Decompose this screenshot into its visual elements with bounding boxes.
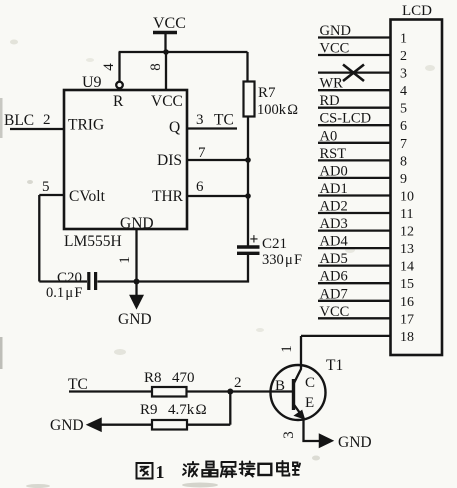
node ground junction [134, 279, 140, 285]
svg-text:330 μ F: 330 μ F [262, 252, 302, 268]
svg-text:5: 5 [400, 102, 407, 117]
wire C20 right lead [97, 280, 136, 282]
no-connect X on pin 3 [343, 65, 364, 82]
svg-text:E: E [305, 395, 314, 411]
wire R7 bottom to C21 [247, 117, 249, 246]
svg-text:GND: GND [118, 311, 152, 328]
wire LCD pin 2 [318, 54, 391, 56]
wire collector to LCD pin 18 [301, 335, 391, 337]
wire LCD pin 14 [318, 264, 391, 266]
IC U9 LM555H body [64, 90, 187, 232]
svg-text:6: 6 [400, 119, 407, 134]
wire BLC to TRIG pin 2 [10, 128, 64, 130]
svg-text:4: 4 [101, 63, 117, 71]
svg-text:TRIG: TRIG [68, 117, 104, 134]
svg-text:13: 13 [400, 242, 414, 257]
svg-text:CVolt: CVolt [69, 188, 106, 205]
svg-text:3: 3 [400, 67, 407, 82]
svg-text:3: 3 [196, 112, 204, 128]
capacitor C20 [46, 270, 96, 301]
wire LCD pin 7 [318, 142, 391, 144]
node DIS junction [245, 157, 251, 163]
wire VCC rail [119, 51, 248, 53]
wire LCD pin 11 [318, 212, 391, 214]
capacitor C21 (polarized) [237, 231, 302, 268]
svg-text:T1: T1 [326, 357, 343, 374]
svg-text:B: B [275, 378, 285, 394]
wire R9 left lead [99, 424, 152, 426]
resistor R9 [140, 402, 207, 430]
svg-text:10: 10 [400, 190, 414, 205]
svg-text:LCD: LCD [402, 3, 432, 19]
svg-text:TC: TC [214, 112, 234, 129]
svg-text:GND: GND [50, 417, 84, 434]
node THR junction [245, 193, 251, 199]
node base junction [227, 389, 233, 395]
ground symbol below U9 [118, 282, 152, 329]
svg-text:17: 17 [400, 312, 414, 327]
wire TC to R8 [69, 390, 152, 392]
resistor R7 [244, 82, 299, 119]
wire LCD pin 5 [318, 107, 391, 109]
svg-text:2: 2 [43, 112, 51, 128]
wire LCD pin 16 [318, 300, 391, 302]
wire U9 GND pin 1 [135, 229, 137, 282]
wire CVolt pin 5 [39, 195, 64, 282]
svg-text:R8: R8 [144, 370, 162, 386]
svg-text:R9: R9 [140, 402, 158, 418]
wire DIS pin 7 to R7 line [187, 159, 248, 161]
svg-text:1: 1 [400, 32, 407, 47]
svg-text:R7: R7 [258, 85, 276, 101]
svg-text:BLC: BLC [4, 112, 34, 129]
svg-text:C20: C20 [57, 270, 82, 286]
svg-text:U9: U9 [82, 74, 102, 91]
caption char 图 [137, 463, 153, 479]
svg-text:470: 470 [172, 370, 195, 386]
wire LCD pin 13 [318, 247, 391, 249]
svg-text:1: 1 [117, 256, 133, 264]
svg-text:7: 7 [198, 145, 206, 161]
wire R7 top lead [246, 52, 248, 82]
svg-text:THR: THR [152, 188, 184, 205]
svg-text:3: 3 [281, 431, 297, 439]
wire junction down to R9 [229, 392, 231, 425]
wire LCD pin 6 [318, 124, 391, 126]
wire pin 8 (VCC) drop [165, 52, 167, 90]
caption figure title 图1 液晶屏接口电路 [137, 461, 301, 482]
svg-text:7: 7 [400, 137, 407, 152]
caption char 路 (clipped) [293, 463, 300, 475]
svg-text:VCC: VCC [153, 15, 186, 32]
svg-text:1: 1 [156, 462, 165, 482]
svg-text:9: 9 [400, 172, 407, 187]
svg-text:2: 2 [234, 375, 242, 391]
caption char 液 [183, 462, 199, 477]
wire Q pin 3 stub [187, 127, 237, 129]
caption char 屏 [221, 462, 236, 477]
resistor R8 [144, 370, 195, 397]
wire LCD pin 15 [318, 282, 391, 284]
wire LCD pin 9 [318, 177, 391, 179]
wire LCD pin 1 [318, 36, 391, 38]
wire C21 bottom to ground rail [137, 255, 249, 282]
inversion bubble pin 4 [116, 82, 123, 89]
wire LCD pin 17 [318, 317, 391, 319]
svg-text:6: 6 [196, 179, 204, 195]
wire LCD pin 10 [318, 194, 391, 196]
svg-text:LM555H: LM555H [64, 233, 122, 250]
svg-text:11: 11 [400, 207, 413, 222]
svg-text:4.7k Ω: 4.7k Ω [168, 402, 207, 418]
svg-text:0.1 μ F: 0.1 μ F [46, 285, 82, 301]
svg-text:15: 15 [400, 277, 414, 292]
caption char 接 [240, 462, 255, 477]
svg-text:12: 12 [400, 225, 414, 240]
wire R9 right lead [187, 424, 230, 426]
wire C20 left lead [39, 280, 87, 282]
svg-text:VCC: VCC [151, 93, 183, 110]
svg-text:GND: GND [338, 434, 372, 451]
svg-text:18: 18 [400, 330, 414, 345]
ground arrow (emitter) [320, 434, 372, 451]
wire LCD pin 8 [318, 159, 391, 161]
wire R8 to base junction [187, 390, 294, 392]
svg-text:2: 2 [400, 49, 407, 64]
caption char 口 [259, 464, 272, 475]
ground arrow (left) [50, 417, 101, 434]
svg-text:DIS: DIS [157, 152, 182, 169]
transistor T1 [271, 336, 326, 441]
wire LCD pin 4 [318, 89, 391, 91]
connector LCD body [391, 3, 443, 355]
svg-text:C: C [305, 375, 315, 391]
wire THR pin 6 to R7 line [187, 195, 248, 197]
VCC power symbol (top) [153, 15, 186, 52]
svg-text:14: 14 [400, 260, 414, 275]
svg-text:4: 4 [400, 84, 407, 99]
svg-text:16: 16 [400, 295, 414, 310]
svg-text:1: 1 [279, 345, 295, 353]
svg-text:100k Ω: 100k Ω [257, 102, 298, 118]
wire LCD pin 12 [318, 229, 391, 231]
svg-text:5: 5 [42, 179, 50, 195]
svg-text:Q: Q [169, 119, 180, 136]
caption char 晶 [202, 462, 217, 477]
svg-text:C21: C21 [262, 236, 287, 252]
svg-text:8: 8 [400, 154, 407, 169]
wire LCD pin 3 [318, 71, 391, 73]
svg-text:8: 8 [148, 63, 164, 71]
svg-text:R: R [113, 93, 124, 110]
wire pin 4 (reset) drop [118, 52, 120, 82]
node VCC/pin8 junction [163, 49, 169, 55]
caption char 电 [277, 461, 289, 476]
